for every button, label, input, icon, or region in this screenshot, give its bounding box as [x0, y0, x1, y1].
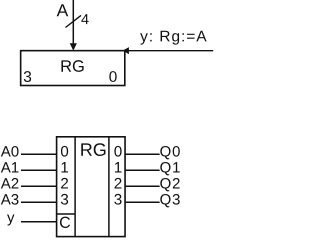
label RG top box — [61, 60, 83, 72]
output label Q0 — [160, 146, 180, 159]
inner partition line left — [74, 137, 76, 237]
wire Q1 — [125, 169, 160, 171]
input label y — [7, 214, 14, 225]
wire A1 — [21, 169, 57, 171]
wire A0 — [21, 153, 57, 155]
output label Q3 — [160, 194, 179, 207]
wire A bus vertical — [72, 0, 74, 45]
register RG word-level box — [21, 51, 125, 86]
inner partition line right — [108, 137, 110, 237]
register detailed body — [57, 137, 125, 237]
bit index 0 — [109, 71, 116, 82]
pin 2 right — [115, 178, 122, 189]
bus arrowhead into register — [70, 43, 77, 50]
input label A3 — [1, 194, 19, 205]
input label A0 — [1, 146, 19, 157]
pin 0 right — [114, 146, 121, 157]
wire A2 — [21, 185, 57, 187]
wire control y horizontal — [129, 50, 214, 52]
pin 2 left — [61, 178, 68, 189]
output label Q1 — [160, 162, 179, 175]
pin 1 left — [61, 162, 68, 172]
control annotation y: Rg:=A — [140, 31, 206, 45]
node A bus name label — [57, 4, 69, 16]
pin 0 left — [61, 146, 68, 157]
wire Q0 — [125, 153, 160, 155]
bus width label 4 — [81, 14, 88, 24]
label RG bottom box — [81, 143, 105, 156]
bit index 3 — [24, 71, 31, 82]
input label A2 — [1, 178, 19, 188]
wire Q3 — [125, 201, 160, 203]
wire Q2 — [125, 185, 160, 187]
pin 3 left — [61, 194, 68, 205]
separator above C cell — [57, 213, 76, 215]
pin 1 right — [115, 162, 122, 172]
input label A1 — [1, 162, 19, 172]
pin 3 right — [114, 194, 121, 205]
output label Q2 — [160, 178, 179, 191]
control arrowhead at register corner — [123, 47, 129, 54]
wire A3 — [21, 201, 57, 203]
wire y control — [21, 221, 57, 223]
bus width slash tick — [66, 15, 82, 27]
pin C clock — [60, 217, 70, 228]
